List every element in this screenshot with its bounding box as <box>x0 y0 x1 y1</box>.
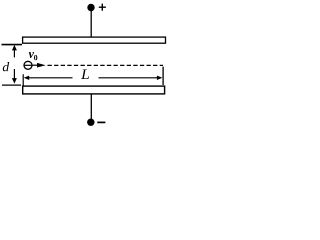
electron symbol (circled minus) <box>24 61 32 69</box>
plus polarity label <box>99 4 106 11</box>
dashed trajectory line <box>48 64 164 66</box>
label d <box>3 62 9 71</box>
node top terminal dot <box>87 4 94 11</box>
d dimension up arrow <box>13 47 15 58</box>
L dimension right extension line <box>162 67 164 85</box>
label v0 <box>29 52 34 58</box>
minus polarity label <box>97 121 105 123</box>
d dimension down arrow <box>13 69 15 82</box>
wire top terminal <box>90 11 92 37</box>
d dimension upper extension line <box>2 44 23 46</box>
L dimension left arrow <box>24 76 30 80</box>
d dimension lower extension line <box>2 84 21 86</box>
top plate <box>23 37 166 43</box>
node bottom terminal dot <box>87 119 94 126</box>
L dimension right arrow <box>99 77 158 79</box>
wire bottom terminal <box>90 94 92 119</box>
velocity arrow v0 <box>32 64 39 66</box>
L dimension left extension line <box>22 74 24 85</box>
label L <box>81 70 89 80</box>
bottom plate <box>23 86 165 94</box>
